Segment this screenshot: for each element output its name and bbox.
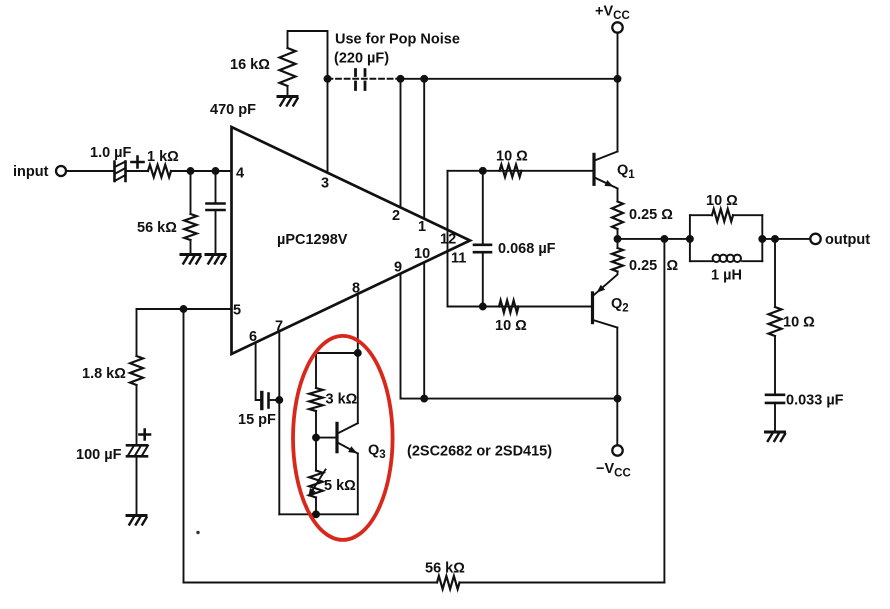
wire feedback left vertical	[183, 309, 185, 583]
wire down to 56k	[190, 171, 192, 214]
svg-text:output: output	[825, 232, 870, 248]
wire pin 8	[357, 294, 359, 353]
wire R1k to pin 4	[171, 170, 232, 172]
transistor Q1 (NPN)	[594, 152, 618, 189]
svg-text:100 µF: 100 µF	[76, 447, 122, 463]
wire 1.8k to 100uF	[136, 385, 138, 445]
svg-text:1.0 µF: 1.0 µF	[90, 145, 132, 161]
svg-text:10 Ω: 10 Ω	[495, 318, 527, 334]
dashed wire (pop noise option)	[328, 78, 401, 80]
transistor Q3 (NPN)	[337, 423, 358, 453]
wire Q3 emitter down	[357, 454, 359, 515]
wire to 3k	[315, 353, 317, 388]
ground under 56k	[181, 253, 200, 256]
resistor 0.25 Ohm (top)	[612, 202, 623, 230]
svg-text:56 kΩ: 56 kΩ	[137, 220, 177, 236]
junction Q3 base node	[313, 435, 319, 441]
wire 15pF to pin7 line	[269, 399, 280, 401]
output node rail	[618, 238, 690, 240]
svg-text:input: input	[13, 164, 49, 180]
wire 3k to base node	[315, 411, 317, 438]
junction pin8/Q3 collector	[355, 350, 361, 356]
resistor 5 kOhm (variable)	[309, 471, 323, 498]
svg-text:10 Ω: 10 Ω	[706, 193, 738, 209]
wire 100uF to ground	[136, 456, 138, 514]
wire zobel C to ground	[774, 403, 776, 431]
wire down to zobel	[774, 239, 776, 307]
svg-text:1 kΩ: 1 kΩ	[147, 149, 179, 165]
junction pin3 line / pop-noise rail	[325, 76, 331, 82]
transistor Q2 (PNP)	[593, 272, 618, 328]
svg-text:5 kΩ: 5 kΩ	[324, 478, 356, 494]
wire 470pF to ground	[215, 210, 217, 253]
svg-text:3 kΩ: 3 kΩ	[326, 392, 358, 408]
svg-text:0.068 µF: 0.068 µF	[498, 241, 556, 257]
svg-text:15 pF: 15 pF	[238, 412, 276, 428]
wire feedback right vertical	[663, 239, 665, 583]
capacitor 470 pF	[207, 204, 225, 211]
svg-text:0.25 Ω: 0.25 Ω	[629, 207, 673, 223]
LR damping network box	[690, 215, 762, 261]
wire +Vcc down to Q1 collector	[617, 33, 619, 152]
capacitor 15 pF	[260, 393, 263, 409]
ground under zobel	[766, 431, 785, 434]
resistor 1.8 kOhm	[130, 356, 143, 385]
capacitor 0.033 uF	[766, 395, 784, 403]
resistor 56 kOhm (feedback)	[437, 576, 460, 589]
svg-text:1 µH: 1 µH	[711, 268, 742, 284]
svg-text:7: 7	[275, 319, 283, 335]
svg-text:6: 6	[249, 329, 257, 345]
junction 15pF / pin7	[276, 397, 282, 403]
-Vcc terminal	[612, 445, 622, 455]
wire pin 10	[423, 262, 425, 398]
wire input to C1	[67, 170, 115, 172]
wire 5k to bottom rail	[315, 498, 317, 515]
svg-text:56 kΩ: 56 kΩ	[425, 561, 465, 577]
resistor 10 Ohm (zobel)	[769, 307, 782, 336]
svg-text:(220 µF): (220 µF)	[334, 51, 389, 67]
svg-text:1.8 kΩ: 1.8 kΩ	[82, 366, 126, 382]
wire base node down to 5k	[315, 438, 317, 471]
svg-text:0.25: 0.25	[629, 258, 657, 274]
wire Q2 collector to -Vcc	[616, 328, 618, 446]
capacitor 0.068 uF	[474, 245, 491, 252]
wire base node to Q3	[316, 437, 337, 439]
junction 5k bottom	[313, 511, 319, 517]
wire C1 to R 1k	[126, 170, 149, 172]
junction feedback tap	[661, 236, 667, 242]
arrow of variable resistor	[310, 470, 326, 496]
node at 470pF branch	[213, 168, 219, 174]
svg-text:16 kΩ: 16 kΩ	[230, 57, 270, 73]
wire Q1 base rail	[448, 170, 594, 172]
wire pins 12/11	[447, 171, 449, 307]
wire Q3 collector up	[357, 353, 359, 423]
wire 16k top to pin3 line	[288, 31, 328, 173]
junction at -Vcc line	[615, 396, 621, 402]
svg-text:1: 1	[418, 219, 426, 235]
resistor 56 kOhm (input bias)	[184, 214, 196, 240]
resistor 10 Ohm (damper)	[690, 214, 762, 216]
ground under 100uF	[127, 514, 146, 517]
junction pin2	[398, 76, 404, 82]
wire 0.25 to output node	[617, 230, 619, 249]
svg-text:10: 10	[414, 246, 430, 262]
resistor 10 Ohm (Q2 base)	[499, 300, 519, 312]
resistor 16 kOhm	[280, 48, 296, 86]
red highlight ellipse around Q3	[293, 336, 393, 540]
wire pin 9	[401, 274, 618, 399]
wire zobel R to C	[774, 336, 776, 395]
svg-text:4: 4	[236, 166, 244, 182]
svg-text:10 Ω: 10 Ω	[783, 315, 815, 331]
svg-text:2: 2	[392, 208, 400, 224]
svg-text:0.033 µF: 0.033 µF	[786, 393, 844, 409]
svg-text:5: 5	[233, 303, 241, 319]
capacitor 220uF (dashed, optional)	[356, 70, 366, 90]
svg-text:8: 8	[352, 281, 360, 297]
wire Q3 top rail	[316, 352, 358, 354]
capacitor 1.0uF (electrolytic, hatched)	[115, 162, 126, 182]
junction pin1	[421, 76, 427, 82]
inductor 1 uH	[690, 260, 762, 262]
node at 56k branch	[188, 168, 194, 174]
junction output RC branch	[772, 236, 778, 242]
output terminal	[810, 234, 820, 244]
wire 16k to ground	[287, 86, 289, 95]
svg-text:470 pF: 470 pF	[210, 102, 256, 118]
resistor 3 kOhm	[309, 388, 323, 411]
svg-text:3: 3	[321, 176, 329, 192]
svg-text:Ω: Ω	[667, 258, 679, 274]
svg-text:Use for Pop Noise: Use for Pop Noise	[335, 32, 460, 48]
wire Q1 emitter to 0.25	[617, 189, 619, 202]
plus sign of 100uF cap	[140, 430, 151, 440]
wire bottom rail left	[184, 582, 438, 584]
svg-text:9: 9	[394, 260, 402, 276]
wire pin 7	[278, 331, 280, 514]
input terminal	[56, 166, 66, 176]
wire pin 6	[256, 343, 261, 401]
junction 0.068 top	[480, 168, 486, 174]
resistor 0.25 Ohm (bottom)	[612, 248, 623, 272]
wire pin 5	[137, 308, 232, 310]
wire pin 1	[423, 79, 425, 219]
wire pin 2	[400, 79, 402, 208]
wire 0.068 cap branch	[482, 171, 484, 307]
+Vcc terminal	[612, 22, 622, 32]
resistor 1 kOhm	[148, 165, 171, 177]
wire down to 470pF cap	[215, 171, 217, 203]
wire 56k to ground	[190, 240, 192, 253]
junction pin10/pin9 rail	[421, 396, 427, 402]
wire bottom rail right	[460, 582, 665, 584]
capacitor 100uF (electrolytic, hatched)	[127, 445, 148, 456]
svg-text:12: 12	[440, 232, 456, 248]
stray speck	[196, 531, 199, 534]
junction +Vcc rail	[615, 76, 621, 82]
junction feedback left	[181, 306, 187, 312]
wire to output	[762, 238, 810, 240]
svg-text:µPC1298V: µPC1298V	[277, 232, 348, 248]
wire Q3 bottom rail	[279, 513, 358, 515]
op-amp U1 uPC1298V triangle	[232, 127, 471, 354]
resistor 10 Ohm (Q1 base)	[500, 165, 522, 177]
svg-text:10 Ω: 10 Ω	[496, 149, 528, 165]
svg-text:11: 11	[451, 251, 466, 267]
plus sign of 1.0uF cap	[132, 157, 144, 168]
wire pin5 corner down	[136, 309, 138, 356]
ground under 470pF	[206, 253, 225, 256]
junction 0.068 bottom	[480, 304, 486, 310]
wire Q2 base rail	[448, 306, 593, 308]
wire top supply rail	[401, 78, 618, 80]
svg-text:(2SC2682 or 2SD415): (2SC2682 or 2SD415)	[407, 444, 552, 460]
ground under 16k	[278, 95, 297, 98]
